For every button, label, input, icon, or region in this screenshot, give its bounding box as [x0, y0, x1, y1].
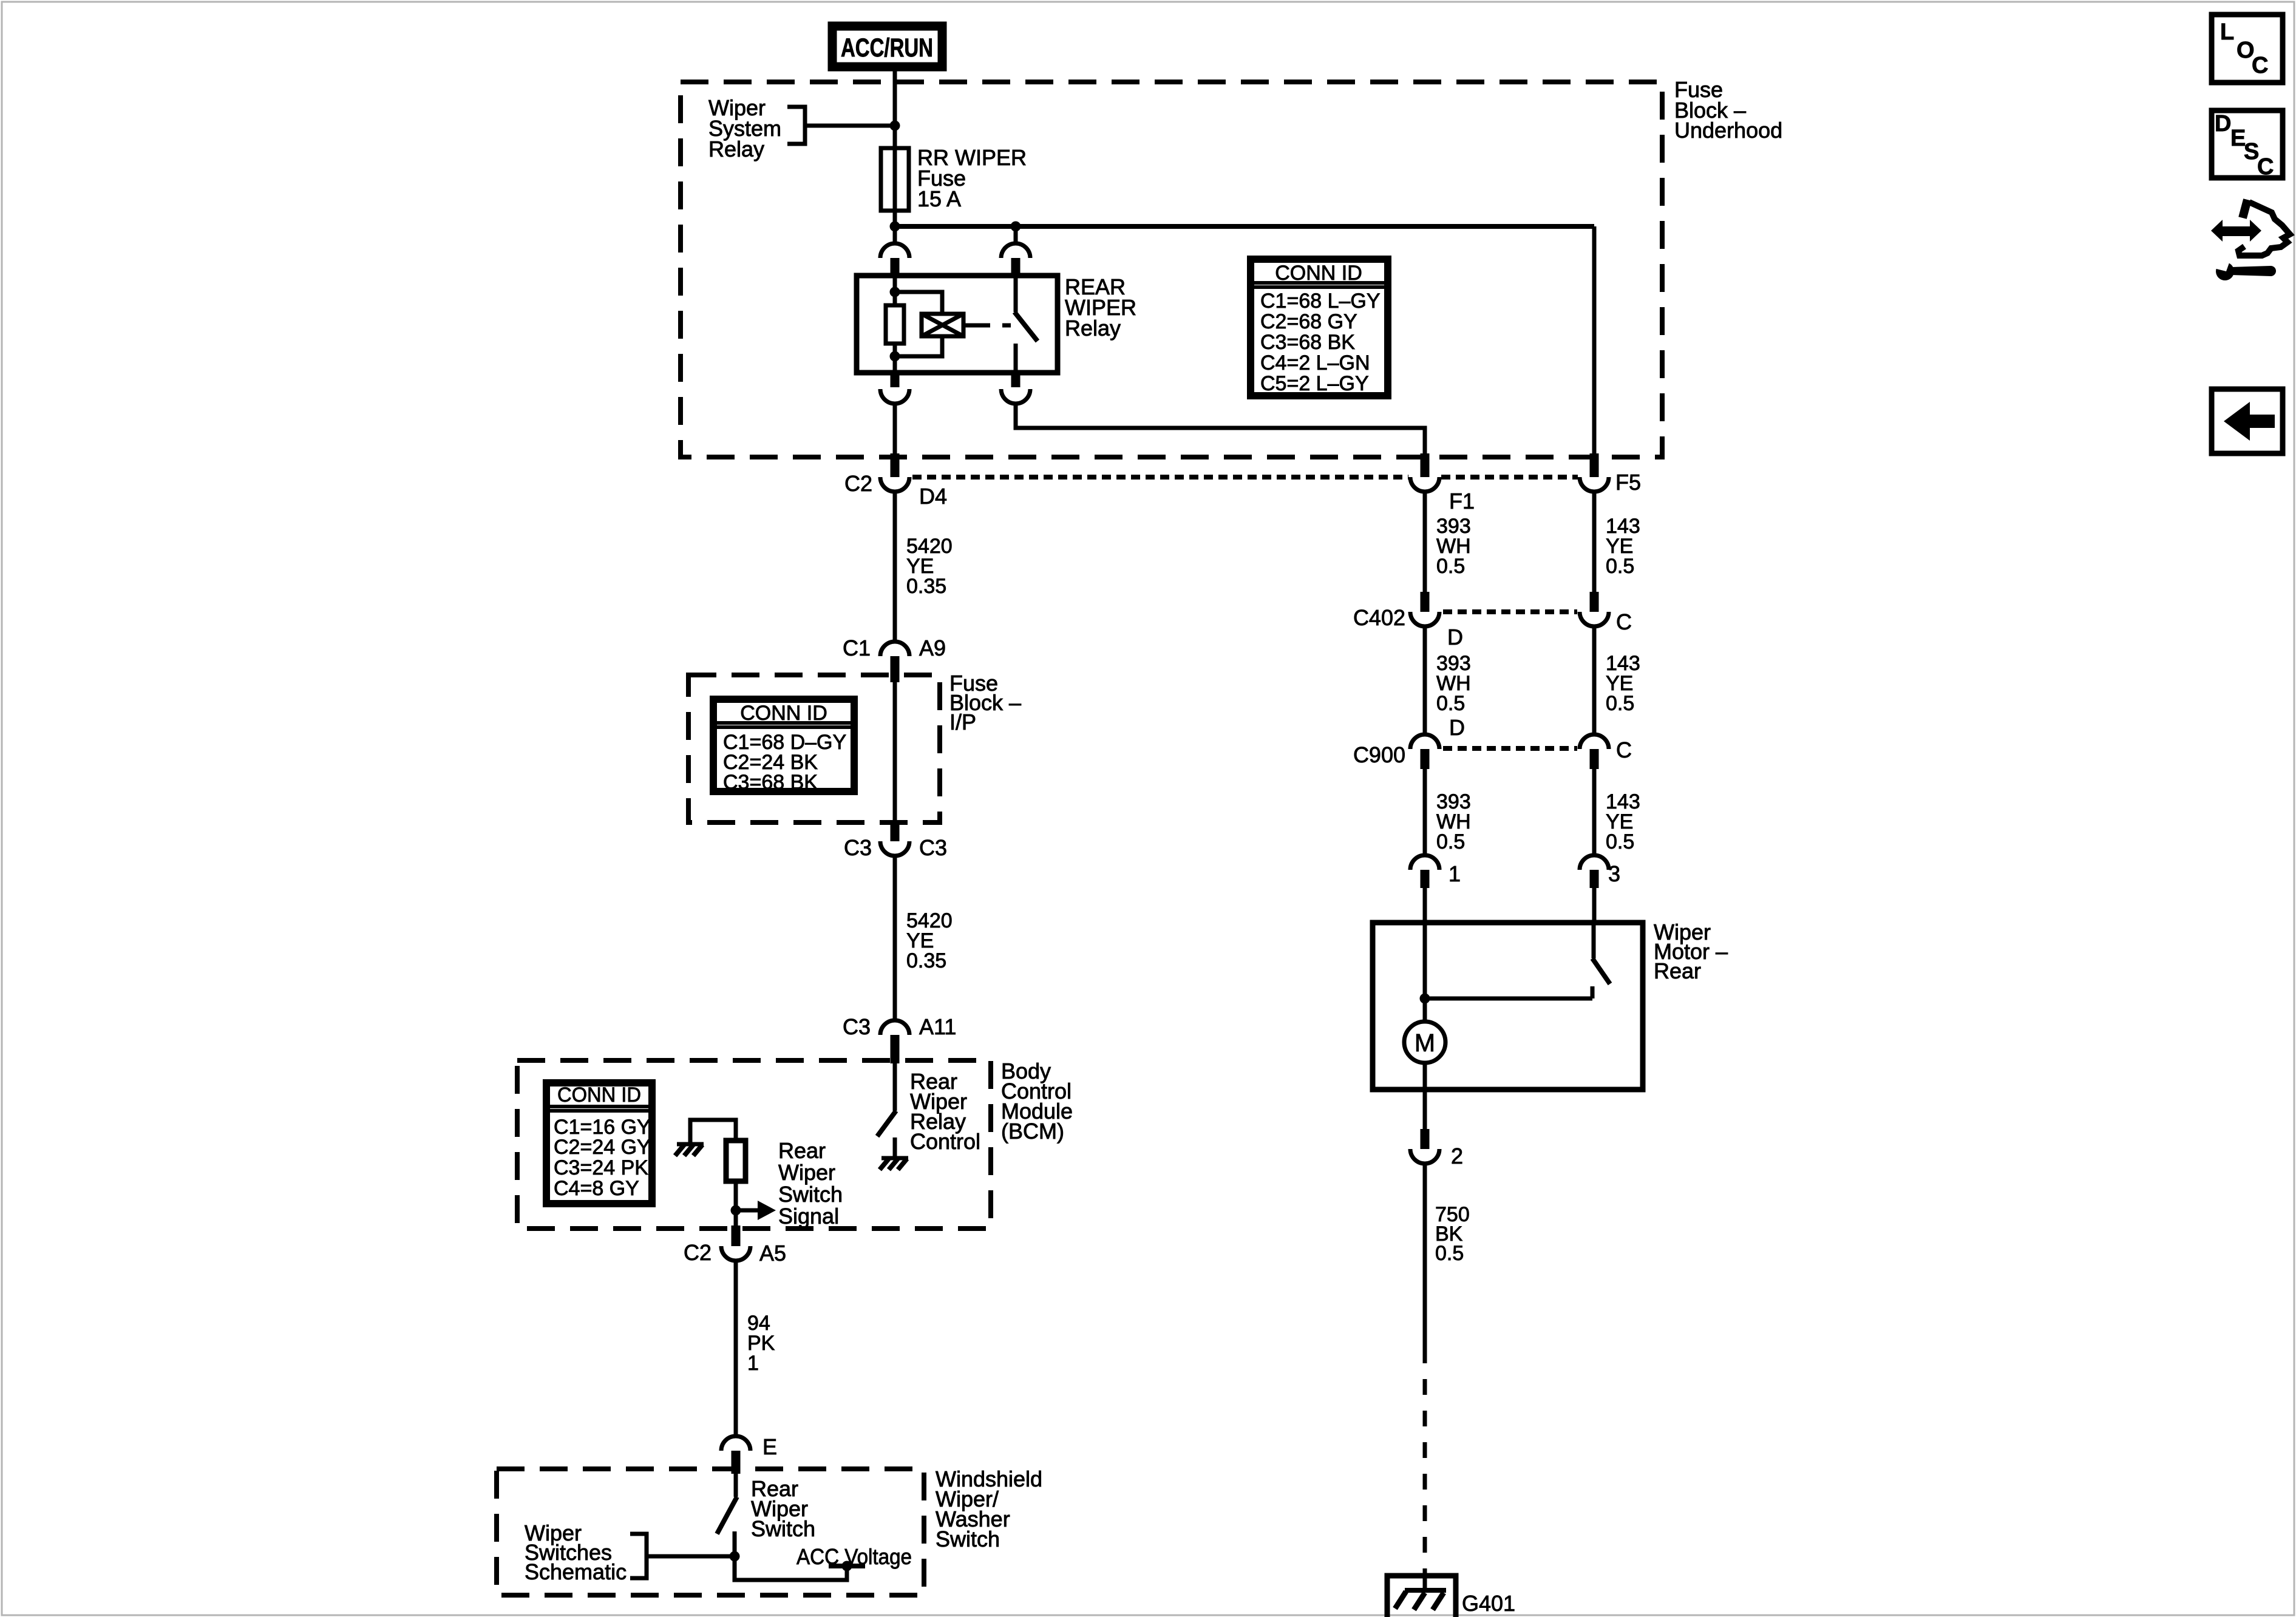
svg-text:Underhood: Underhood	[1674, 118, 1782, 143]
component box Windshield Wiper/Washer Switch (dashed)	[497, 1469, 924, 1595]
svg-text:0.5: 0.5	[1435, 1242, 1464, 1265]
connector F5	[1580, 453, 1609, 592]
fuse RR WIPER 15 A	[881, 148, 909, 211]
svg-text:F1: F1	[1449, 489, 1475, 514]
svg-text:I/P: I/P	[949, 710, 976, 734]
wire ACC/RUN feed to fuse	[893, 71, 897, 148]
node junction relay resistor bottom	[890, 351, 900, 362]
connector pin 3 wiper motor	[1580, 855, 1609, 923]
node junction at relay coil branch	[890, 222, 900, 232]
connector C2/D4	[880, 453, 909, 640]
label Fuse Block - Underhood	[1674, 77, 1782, 143]
svg-text:C: C	[1616, 609, 1632, 634]
motor M wiper motor	[1404, 923, 1445, 1090]
svg-text:CONN ID: CONN ID	[740, 702, 827, 725]
wire bus to F5 drop	[1592, 226, 1597, 453]
label Wiper Switches Schematic	[525, 1520, 627, 1584]
connector row dotted line C402	[1443, 609, 1577, 614]
svg-text:C3: C3	[844, 835, 872, 860]
label Wiper System Relay	[708, 95, 781, 161]
svg-text:0.5: 0.5	[1436, 555, 1465, 578]
svg-text:C2: C2	[844, 471, 872, 496]
wire label 5420 YE 0.35 second	[906, 909, 953, 972]
connector C2/A5	[721, 1225, 750, 1434]
node junction relay resistor top	[890, 287, 900, 297]
wire motor ground dashed	[1423, 1347, 1427, 1575]
wire fuse output bus	[895, 211, 1594, 226]
svg-text:C: C	[2257, 154, 2274, 180]
switch Rear Wiper Switch	[717, 1474, 737, 1556]
connector C402 right half	[1580, 592, 1609, 734]
dashed actuation link coil to switch	[963, 324, 1011, 328]
node junction at relay switch branch	[1011, 222, 1021, 232]
svg-text:3: 3	[1608, 861, 1620, 886]
wire through Fuse Block I/P	[893, 682, 897, 820]
svg-text:G401: G401	[1462, 1591, 1515, 1616]
wire rear wiper switch to ACC voltage	[735, 1556, 847, 1580]
off-page bracket Wiper System Relay	[787, 107, 805, 144]
connector row dotted line C2/F1/F5	[912, 475, 1578, 480]
svg-text:0.5: 0.5	[1606, 830, 1634, 853]
table CONN ID (I/P)	[713, 699, 854, 794]
svg-text:D: D	[1449, 715, 1465, 740]
svg-text:C1=68 L–GY: C1=68 L–GY	[1260, 290, 1381, 313]
wire park switch to motor	[1425, 997, 1592, 1001]
node junction wiper switches schematic tap	[730, 1551, 740, 1562]
svg-text:M: M	[1415, 1029, 1435, 1057]
label Body Control Module (BCM)	[1001, 1059, 1073, 1144]
component box Fuse Block - I/P (dashed)	[688, 675, 940, 822]
svg-text:C2=24 GY: C2=24 GY	[554, 1136, 651, 1159]
switch park switch in wiper motor	[1592, 923, 1610, 998]
svg-text:A11: A11	[919, 1014, 956, 1039]
node junction at wiper system relay tap	[890, 121, 900, 131]
svg-text:CONN ID: CONN ID	[1275, 262, 1362, 285]
label Rear Wiper Relay Control	[910, 1069, 980, 1154]
pin 85 connector relay output right	[1001, 373, 1030, 404]
table CONN ID (BCM)	[546, 1083, 652, 1204]
svg-text:E: E	[763, 1434, 777, 1459]
svg-text:C4=2 L–GN: C4=2 L–GN	[1260, 351, 1370, 375]
svg-text:Wiper: Wiper	[778, 1160, 835, 1185]
svg-text:Switch: Switch	[778, 1182, 843, 1207]
label Wiper Motor - Rear	[1654, 920, 1728, 983]
ground symbol BCM relay control	[880, 1158, 908, 1170]
svg-text:0.5: 0.5	[1606, 692, 1634, 715]
svg-text:CONN ID: CONN ID	[557, 1083, 641, 1107]
svg-text:1: 1	[747, 1352, 759, 1375]
off-page bracket Wiper Switches Schematic	[630, 1534, 735, 1578]
svg-text:Schematic: Schematic	[525, 1559, 627, 1584]
wire to Wiper System Relay bracket	[805, 124, 895, 128]
label Rear Wiper Switch	[751, 1476, 815, 1541]
svg-text:C3=68 BK: C3=68 BK	[723, 771, 818, 794]
component box Body Control Module BCM (dashed)	[517, 1060, 991, 1229]
terminal bar ACC Voltage	[829, 1564, 865, 1568]
icon LOC box	[2212, 15, 2283, 83]
svg-text:Control: Control	[910, 1129, 980, 1154]
svg-text:0.35: 0.35	[906, 949, 946, 972]
svg-text:C1: C1	[843, 636, 871, 660]
connector C402 left half	[1410, 592, 1439, 734]
node junction motor feed	[1420, 994, 1430, 1004]
resistor BCM switch signal pull-up	[690, 1120, 746, 1225]
label Rear Wiper Switch Signal	[778, 1138, 843, 1229]
resistor in relay	[886, 276, 904, 373]
pin 30 connector at relay switch	[1001, 226, 1030, 276]
node junction at ACC voltage bar	[842, 1561, 852, 1571]
svg-text:L: L	[2220, 19, 2234, 45]
svg-text:A5: A5	[759, 1241, 786, 1266]
svg-text:C3=24 PK: C3=24 PK	[554, 1156, 648, 1179]
component box Wiper Motor - Rear	[1373, 923, 1643, 1090]
relay switch blade	[1014, 276, 1038, 373]
label RR WIPER Fuse 15 A	[917, 145, 1027, 211]
svg-text:Rear: Rear	[1654, 958, 1701, 983]
svg-text:D4: D4	[919, 484, 947, 509]
connector C900 left half	[1410, 734, 1439, 853]
label REAR WIPER Relay	[1065, 274, 1136, 341]
svg-text:Switch: Switch	[936, 1527, 1000, 1551]
wire motor ground solid	[1423, 1165, 1427, 1347]
pin 87 connector relay output left	[880, 373, 909, 453]
node junction switch signal tap	[731, 1205, 741, 1216]
svg-text:C3: C3	[843, 1014, 871, 1039]
svg-text:15 A: 15 A	[917, 186, 961, 211]
wire label 393 WH 0.5 third	[1436, 790, 1471, 853]
wire label 143 YE 0.5 second	[1606, 652, 1640, 715]
label Fuse Block - I/P	[949, 671, 1021, 734]
svg-text:ACC Voltage: ACC Voltage	[796, 1544, 912, 1569]
pin 86 connector at relay coil	[880, 226, 909, 276]
svg-text:0.35: 0.35	[906, 575, 946, 598]
svg-text:2: 2	[1451, 1144, 1463, 1168]
svg-text:Switch: Switch	[751, 1516, 815, 1541]
svg-text:D: D	[2215, 111, 2231, 137]
connector C3/C3	[880, 820, 909, 1019]
svg-text:D: D	[1447, 625, 1463, 649]
connector C1/A9	[880, 642, 909, 682]
wire label 750 BK 0.5	[1435, 1203, 1470, 1265]
icon DESC box	[2212, 110, 2283, 180]
wire label 393 WH 0.5 second	[1436, 652, 1471, 715]
connector pin 2 wiper motor	[1410, 1090, 1439, 1164]
svg-text:F5: F5	[1615, 470, 1641, 495]
connector F1	[1410, 453, 1439, 592]
svg-text:1: 1	[1449, 861, 1461, 886]
svg-text:(BCM): (BCM)	[1001, 1119, 1064, 1144]
svg-text:0.5: 0.5	[1436, 692, 1465, 715]
component box Fuse Block - Underhood (dashed)	[681, 82, 1662, 457]
svg-text:Relay: Relay	[708, 137, 764, 161]
svg-text:C: C	[1616, 737, 1632, 762]
svg-text:Signal: Signal	[778, 1204, 839, 1229]
ground G401	[1387, 1576, 1456, 1617]
signal arrow Rear Wiper Switch Signal	[736, 1201, 776, 1220]
svg-text:ACC/RUN: ACC/RUN	[841, 33, 933, 63]
icon back arrow box	[2212, 389, 2283, 453]
connector row dotted line C900	[1443, 746, 1577, 751]
switch Rear Wiper Relay Control in BCM	[877, 1063, 896, 1158]
table CONN ID (underhood)	[1251, 259, 1388, 396]
connector C3/A11	[880, 1020, 909, 1063]
svg-text:C: C	[2252, 53, 2268, 78]
svg-text:0.5: 0.5	[1606, 555, 1634, 578]
svg-text:C2=68 GY: C2=68 GY	[1260, 310, 1357, 333]
svg-text:A9: A9	[919, 636, 946, 660]
relay K REAR WIPER Relay box	[857, 276, 1058, 373]
wire label 94 PK 1	[747, 1312, 775, 1375]
relay coil winding with X	[895, 292, 963, 356]
wire relay right pin to F1	[1016, 405, 1425, 453]
svg-text:0.5: 0.5	[1436, 830, 1465, 853]
wire label 143 YE 0.5 third	[1606, 790, 1640, 853]
svg-text:C4=8 GY: C4=8 GY	[554, 1177, 639, 1200]
svg-text:C3: C3	[919, 835, 947, 860]
svg-text:Rear: Rear	[778, 1138, 826, 1163]
connector pin 1 wiper motor	[1410, 855, 1439, 923]
svg-text:C900: C900	[1353, 742, 1405, 767]
svg-text:C402: C402	[1353, 605, 1405, 630]
svg-text:Relay: Relay	[1065, 316, 1121, 341]
svg-text:C5=2 L–GY: C5=2 L–GY	[1260, 372, 1369, 395]
wire label 5420 YE 0.35	[906, 535, 953, 598]
connector C900 right half	[1580, 734, 1609, 853]
connector E	[721, 1436, 750, 1474]
label Windshield Wiper/ Washer Switch	[936, 1466, 1042, 1551]
icon connector-view double arrow with wrench	[2211, 200, 2290, 280]
wire label 393 WH 0.5 first	[1436, 515, 1471, 578]
ground symbol BCM pull-up	[675, 1144, 704, 1156]
svg-text:C3=68 BK: C3=68 BK	[1260, 331, 1355, 354]
svg-text:C2: C2	[684, 1240, 712, 1265]
wire label 143 YE 0.5 first	[1606, 515, 1640, 578]
power feed box ACC/RUN	[832, 26, 942, 67]
